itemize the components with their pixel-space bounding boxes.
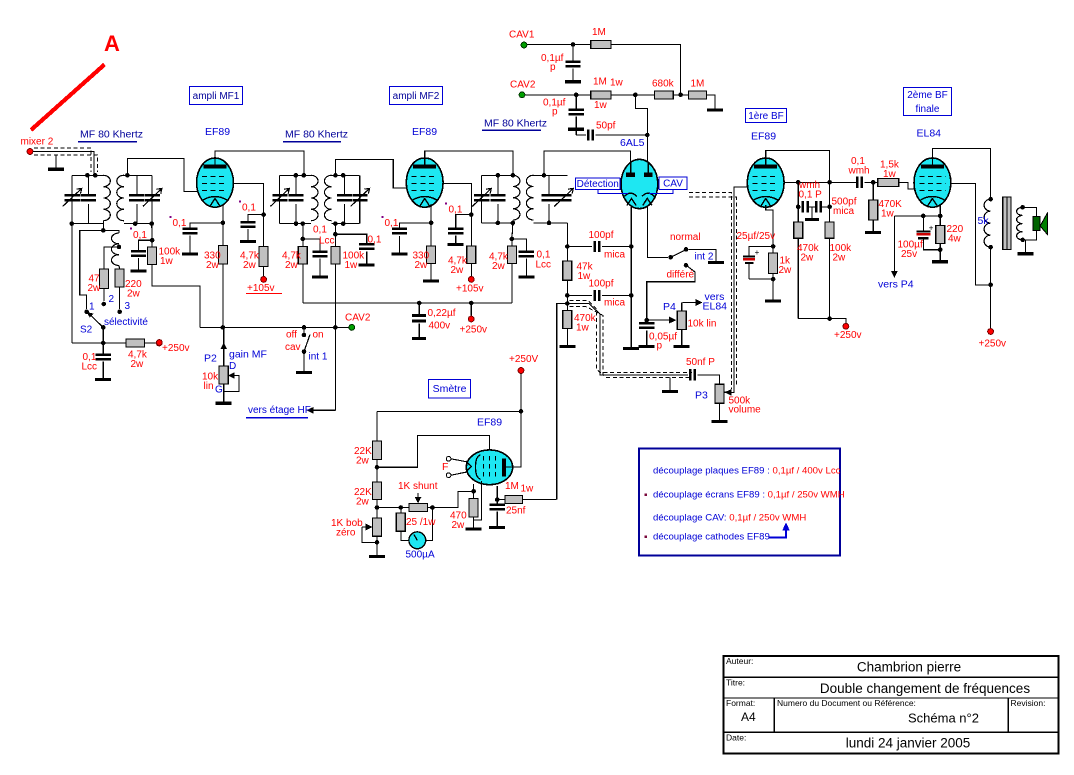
svg-text:D: D <box>229 361 236 372</box>
svg-text:P2: P2 <box>204 353 217 365</box>
svg-text:mica: mica <box>604 249 626 260</box>
svg-text:0,1: 0,1 <box>449 204 463 215</box>
svg-text:CAV: CAV <box>663 179 683 190</box>
svg-text:1w: 1w <box>521 483 535 494</box>
svg-text:découplage CAV: 0,1µf / 250v: découplage CAV: 0,1µf / 250v WMH <box>653 513 806 524</box>
svg-text:+250v: +250v <box>834 330 862 341</box>
svg-text:2w: 2w <box>779 265 793 276</box>
svg-text:CAV2: CAV2 <box>510 79 536 90</box>
svg-text:Double changement de fréquence: Double changement de fréquences <box>820 681 1030 696</box>
svg-text:+250v: +250v <box>460 324 488 335</box>
svg-text:0,05µf: 0,05µf <box>649 331 677 342</box>
svg-text:2w: 2w <box>131 359 145 370</box>
svg-text:4w: 4w <box>948 233 962 244</box>
svg-text:2w: 2w <box>452 520 466 531</box>
svg-text:2w: 2w <box>833 252 847 263</box>
svg-text:1M: 1M <box>505 481 519 492</box>
svg-text:0,1: 0,1 <box>242 202 256 213</box>
svg-text:680k: 680k <box>652 78 675 89</box>
svg-text:EL84: EL84 <box>703 301 728 313</box>
svg-text:5k: 5k <box>978 215 990 227</box>
svg-text:1w: 1w <box>881 208 895 219</box>
svg-text:P3: P3 <box>695 390 708 402</box>
svg-text:int 1: int 1 <box>309 351 328 362</box>
svg-text:lundi 24 janvier 2005: lundi 24 janvier 2005 <box>846 736 971 751</box>
svg-text:Auteur:: Auteur: <box>726 656 753 666</box>
svg-text:normal: normal <box>670 232 701 243</box>
svg-text:1M: 1M <box>593 76 607 87</box>
svg-text:2w: 2w <box>801 252 815 263</box>
svg-text:0,1: 0,1 <box>173 218 187 229</box>
svg-text:+: + <box>755 248 760 257</box>
svg-text:50nf P: 50nf P <box>686 357 715 368</box>
svg-text:400v: 400v <box>429 320 451 331</box>
svg-text:vers étage HF: vers étage HF <box>248 405 311 416</box>
svg-text:1K shunt: 1K shunt <box>398 481 438 492</box>
svg-text:Détection: Détection <box>577 179 619 190</box>
svg-text:off: off <box>286 329 297 340</box>
svg-text:finale: finale <box>916 104 940 115</box>
svg-text:2w: 2w <box>88 283 102 294</box>
svg-text:+250v: +250v <box>979 338 1007 349</box>
svg-text:6AL5: 6AL5 <box>620 137 645 149</box>
svg-text:25nf: 25nf <box>506 505 526 516</box>
svg-text:Titre:: Titre: <box>726 678 745 688</box>
svg-text:p: p <box>550 62 556 73</box>
svg-text:+105v: +105v <box>247 283 275 294</box>
svg-text:cav: cav <box>285 342 301 353</box>
svg-text:0,1: 0,1 <box>313 224 327 235</box>
svg-text:S2: S2 <box>80 324 93 335</box>
svg-text:MF 80 Khertz: MF 80 Khertz <box>484 118 547 130</box>
svg-text:1w: 1w <box>160 256 174 267</box>
svg-text:1w: 1w <box>883 169 897 180</box>
svg-text:1w: 1w <box>576 322 590 333</box>
svg-text:2w: 2w <box>356 496 370 507</box>
svg-text:ampli MF1: ampli MF1 <box>193 91 240 102</box>
svg-text:2w: 2w <box>127 288 141 299</box>
svg-text:volume: volume <box>729 404 762 415</box>
svg-text:2ème BF: 2ème BF <box>907 90 948 101</box>
svg-text:EF89: EF89 <box>412 126 437 138</box>
svg-text:sélectivité: sélectivité <box>104 317 148 328</box>
svg-text:+250V: +250V <box>509 354 539 365</box>
svg-text:2w: 2w <box>492 261 506 272</box>
svg-text:100pf: 100pf <box>589 230 614 241</box>
svg-text:G: G <box>215 384 223 395</box>
svg-text:ampli MF2: ampli MF2 <box>393 91 440 102</box>
svg-text:Lcc: Lcc <box>319 235 335 246</box>
svg-text:2w: 2w <box>356 455 370 466</box>
svg-text:25v: 25v <box>901 249 917 260</box>
svg-text:Smètre: Smètre <box>433 383 467 395</box>
svg-text:+105v: +105v <box>456 283 484 294</box>
svg-text:25 /1w: 25 /1w <box>406 517 436 528</box>
svg-text:EL84: EL84 <box>917 128 942 140</box>
svg-text:2: 2 <box>109 294 115 305</box>
svg-text:2w: 2w <box>243 260 257 271</box>
svg-text:1w: 1w <box>345 260 359 271</box>
svg-text:découplage cathodes EF89: découplage cathodes EF89 <box>653 532 770 543</box>
svg-text:1w: 1w <box>594 100 608 111</box>
svg-text:2w: 2w <box>206 260 220 271</box>
svg-text:3: 3 <box>125 301 131 312</box>
svg-text:CAV2: CAV2 <box>345 312 371 323</box>
svg-text:CAV1: CAV1 <box>509 29 535 40</box>
svg-text:vers P4: vers P4 <box>878 279 914 291</box>
svg-text:gain MF: gain MF <box>229 349 267 361</box>
svg-text:mica: mica <box>833 206 855 217</box>
svg-text:100pf: 100pf <box>589 278 614 289</box>
svg-text:1w: 1w <box>610 77 624 88</box>
svg-text:Revision:: Revision: <box>1011 698 1046 708</box>
svg-text:10k lin: 10k lin <box>688 318 717 329</box>
svg-text:Numero du Document ou Référenc: Numero du Document ou Référence: <box>777 698 916 708</box>
svg-text:0,1: 0,1 <box>368 234 382 245</box>
svg-text:EF89: EF89 <box>477 417 502 429</box>
svg-text:A4: A4 <box>741 710 756 724</box>
svg-text:p: p <box>657 340 663 351</box>
svg-text:1M: 1M <box>592 27 606 38</box>
svg-text:0,1: 0,1 <box>133 230 147 241</box>
svg-text:lin: lin <box>204 381 214 392</box>
svg-text:50pf: 50pf <box>596 120 616 131</box>
svg-text:Chambrion pierre: Chambrion pierre <box>857 660 961 675</box>
svg-text:25µf/25v: 25µf/25v <box>737 231 776 242</box>
svg-text:P4: P4 <box>663 301 676 313</box>
svg-text:1: 1 <box>89 301 95 312</box>
svg-text:1ère BF: 1ère BF <box>748 111 784 122</box>
svg-text:int 2: int 2 <box>695 251 714 262</box>
svg-text:0,1 P: 0,1 P <box>799 190 823 201</box>
svg-text:Lcc: Lcc <box>82 361 98 372</box>
svg-text:2w: 2w <box>451 265 465 276</box>
svg-text:0,1: 0,1 <box>385 218 399 229</box>
svg-text:on: on <box>313 329 324 340</box>
svg-text:Lcc: Lcc <box>536 259 552 270</box>
svg-text:1M: 1M <box>691 78 705 89</box>
svg-text:mica: mica <box>604 297 626 308</box>
svg-text:p: p <box>552 106 558 117</box>
svg-text:MF 80 Khertz: MF 80 Khertz <box>285 129 348 141</box>
svg-text:+250v: +250v <box>162 343 190 354</box>
svg-text:découplage écrans EF89 : 0,1µf: découplage écrans EF89 : 0,1µf / 250v WM… <box>653 490 845 501</box>
svg-text:zéro: zéro <box>336 527 356 538</box>
svg-text:Schéma n°2: Schéma n°2 <box>908 711 979 726</box>
svg-text:EF89: EF89 <box>205 126 230 138</box>
svg-text:0,22µf: 0,22µf <box>428 308 456 319</box>
svg-text:EF89: EF89 <box>751 131 776 143</box>
svg-text:2w: 2w <box>415 260 429 271</box>
svg-text:mixer 2: mixer 2 <box>21 136 54 147</box>
svg-text:+: + <box>929 223 934 232</box>
svg-text:2w: 2w <box>285 260 299 271</box>
svg-text:Date:: Date: <box>726 732 746 742</box>
svg-text:différé: différé <box>667 269 695 280</box>
svg-text:Format:: Format: <box>726 698 755 708</box>
svg-text:A: A <box>104 31 120 56</box>
svg-text:MF 80 Khertz: MF 80 Khertz <box>80 129 143 141</box>
svg-text:500µA: 500µA <box>406 549 435 560</box>
svg-text:découplage plaques EF89 : 0,1µ: découplage plaques EF89 : 0,1µf / 400v L… <box>653 466 841 477</box>
svg-text:wmh: wmh <box>848 165 870 176</box>
svg-text:F: F <box>442 461 448 473</box>
